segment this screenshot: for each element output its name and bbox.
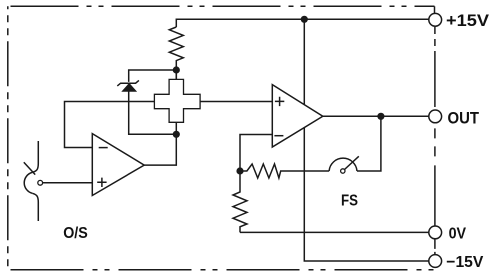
resistor R2 (horizontal feedback) [240, 164, 329, 178]
trimmer switch FS: pivot contact circle [341, 169, 345, 173]
input jack J1: switch slash [24, 162, 35, 174]
U2 inverting input "-" sign [274, 135, 283, 137]
svg-text:0V: 0V [449, 226, 467, 243]
wire: U1 output up to node B [144, 134, 176, 165]
terminal 0V [429, 226, 442, 239]
op-amp U2 (supply line passes behind) [272, 85, 323, 147]
wire: photocell bottom lead to node B [175, 122, 177, 134]
input jack J1: tip contact circle [38, 180, 43, 185]
module boundary dashed border: top [11, 5, 435, 7]
input jack J1: top contact stub [32, 141, 38, 172]
module boundary dashed border: bottom [11, 269, 438, 271]
photocell X1 (plus-shaped cross outline) [154, 79, 200, 122]
zener diode D1 (cathode bar with bent ends) [117, 80, 139, 86]
op-amp U1 [92, 134, 144, 196]
trimmer switch FS: arc [329, 158, 357, 171]
terminal OUT [429, 110, 442, 123]
zener diode D1 (filled triangle, apex up) [122, 84, 136, 92]
module boundary dashed border: right segment +15V to OUT [434, 27, 436, 110]
module boundary dashed border: right segment 0V to -15V [434, 239, 436, 255]
wire: U2 inverting input network [240, 135, 272, 172]
node C: junction feedback resistor / gain resistor [236, 167, 243, 174]
svg-text:FS: FS [341, 193, 358, 210]
node B: junction photocell bottom / zener / U1 output [173, 131, 180, 138]
terminal -15V [429, 255, 442, 268]
node E: junction top rail / supply line [301, 16, 308, 23]
input jack J1: bottom contact stub [32, 193, 38, 221]
resistor R3 (vertical to 0V rail) [233, 171, 247, 232]
terminal +15V [429, 13, 442, 26]
node D: output junction [377, 113, 384, 120]
trimmer switch FS: wiper slash [345, 156, 359, 169]
module boundary dashed border: left [7, 6, 9, 270]
resistor R1 (vertical, from +15V rail) [169, 27, 183, 79]
wire: photocell right to U2 non-inverting input [200, 101, 272, 103]
node A: junction R1 / zener / photocell top [173, 66, 180, 73]
wire: supply line down to -15V rail (passes behind U2) [304, 19, 428, 261]
wire: photocell top lead [175, 70, 177, 79]
wire: 0V rail [240, 231, 429, 233]
wire: jack tip to U1 non-inverting input [43, 182, 93, 184]
svg-text:+15V: +15V [446, 11, 490, 30]
input jack J1: body arc [24, 172, 32, 193]
svg-text:O/S: O/S [63, 225, 88, 242]
U2 non-inverting input "+" sign [275, 97, 284, 106]
U1 inverting input "-" sign [99, 147, 108, 149]
wire: feedback from photocell left to U1 inverting input [65, 102, 155, 148]
U1 non-inverting input "+" sign [97, 178, 106, 187]
wire: zener anode down and right to node B [129, 91, 177, 134]
svg-text:−15V: −15V [446, 254, 483, 271]
wire: switch to output node [357, 116, 381, 171]
svg-text:OUT: OUT [448, 109, 480, 127]
module boundary dashed border: right segment OUT to 0V [434, 128, 436, 226]
wire: +15V top supply rail [176, 19, 428, 27]
wire: U2 output to OUT terminal [323, 115, 429, 117]
wire: node A to zener cathode [129, 70, 177, 82]
